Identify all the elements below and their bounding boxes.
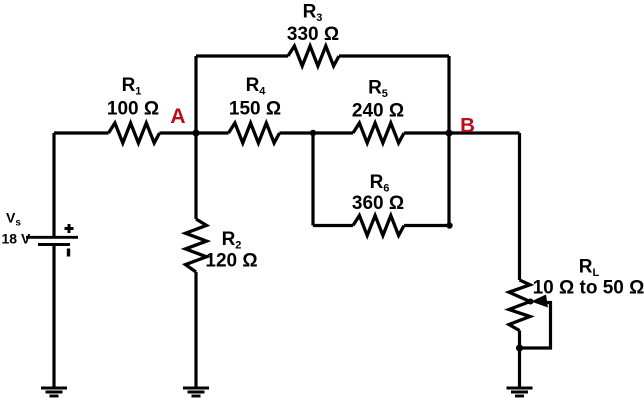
svg-text:R6: R6 [370, 172, 390, 195]
svg-text:R5: R5 [368, 78, 388, 101]
svg-text:240 Ω: 240 Ω [352, 101, 404, 122]
svg-text:330 Ω: 330 Ω [287, 24, 339, 45]
svg-text:120 Ω: 120 Ω [205, 251, 257, 272]
svg-text:100 Ω: 100 Ω [107, 99, 159, 120]
svg-text:B: B [460, 114, 475, 137]
svg-text:R2: R2 [222, 229, 242, 252]
svg-text:360 Ω: 360 Ω [352, 193, 404, 214]
svg-text:Vs: Vs [6, 210, 21, 229]
svg-text:10 Ω to 50 Ω: 10 Ω to 50 Ω [533, 278, 644, 299]
svg-text:150 Ω: 150 Ω [229, 99, 281, 120]
svg-text:A: A [170, 105, 185, 128]
svg-text:R3: R3 [303, 2, 323, 25]
svg-text:R4: R4 [246, 75, 267, 98]
svg-text:RL: RL [579, 257, 600, 280]
svg-text:R1: R1 [122, 75, 142, 98]
svg-text:18 V: 18 V [2, 231, 31, 247]
